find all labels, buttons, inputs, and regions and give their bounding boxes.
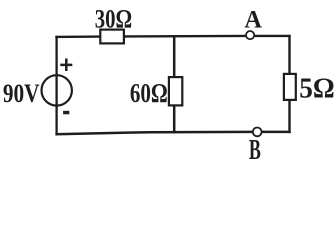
svg-text:5Ω: 5Ω — [299, 73, 334, 105]
wire: top horizontal left segment — [55, 35, 101, 38]
resistor R 60ohm body — [169, 77, 182, 105]
wire: left vertical — [55, 36, 57, 136]
wire: right vertical bottom — [288, 100, 290, 134]
svg-text:30Ω: 30Ω — [95, 5, 132, 34]
node A terminal circle — [246, 31, 254, 39]
svg-text:A: A — [244, 6, 262, 33]
wire: top horizontal middle segment — [124, 35, 247, 38]
wire: bottom horizontal left segment — [55, 132, 253, 134]
plus sign — [60, 59, 72, 72]
minus sign — [63, 111, 69, 115]
wire: middle vertical top — [173, 35, 176, 78]
svg-text:90V: 90V — [3, 80, 40, 108]
voltage source V1 circle — [42, 75, 72, 105]
wire: right vertical top — [288, 35, 290, 75]
svg-text:60Ω: 60Ω — [130, 78, 168, 108]
node B terminal circle — [253, 127, 262, 136]
svg-text:B: B — [249, 135, 261, 166]
resistor R 5ohm body — [284, 74, 296, 100]
wire: top horizontal right segment — [255, 35, 291, 37]
wire: bottom horizontal right segment — [262, 131, 291, 134]
wire: middle vertical bottom — [173, 105, 176, 133]
resistor R 30ohm body — [100, 30, 124, 44]
